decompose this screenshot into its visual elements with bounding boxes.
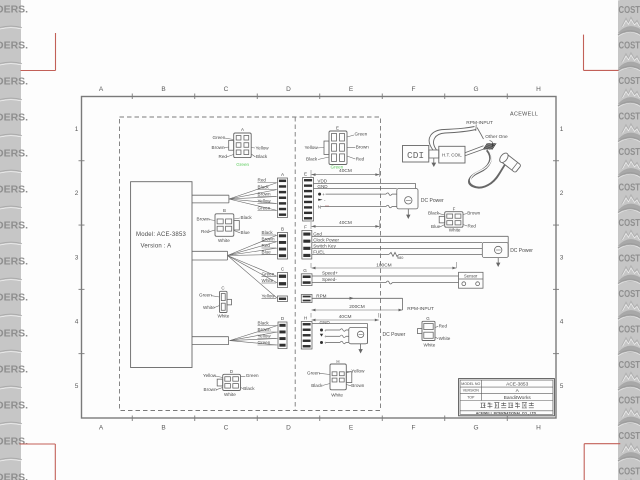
svg-text:ACEWELL: ACEWELL xyxy=(510,112,538,118)
svg-text:White: White xyxy=(424,343,436,348)
svg-text:Brown: Brown xyxy=(258,192,271,197)
svg-text:G: G xyxy=(303,268,307,273)
svg-text:White: White xyxy=(439,336,451,341)
svg-text:A: A xyxy=(99,425,104,432)
svg-text:C: C xyxy=(224,425,229,432)
svg-text:RPM-INPUT: RPM-INPUT xyxy=(466,120,493,126)
svg-text:Speed-: Speed- xyxy=(322,277,337,282)
svg-text:COST: COST xyxy=(619,252,640,264)
svg-text:DERS.: DERS. xyxy=(0,112,28,124)
svg-text:COST: COST xyxy=(619,430,640,442)
svg-text:A: A xyxy=(241,127,244,132)
svg-text:Black: Black xyxy=(243,386,255,391)
svg-text:Red: Red xyxy=(468,223,477,228)
svg-text:Green: Green xyxy=(258,206,271,211)
svg-text:Other One: Other One xyxy=(485,134,508,140)
svg-text:F: F xyxy=(453,206,456,211)
svg-text:D: D xyxy=(286,425,291,432)
svg-text:Model: ACE-3853: Model: ACE-3853 xyxy=(136,232,186,238)
svg-text:Brown: Brown xyxy=(467,211,480,216)
svg-text:DC Power: DC Power xyxy=(421,198,444,204)
svg-text:RPM-INPUT: RPM-INPUT xyxy=(407,306,434,312)
svg-text:Version : A: Version : A xyxy=(141,244,172,250)
svg-text:F: F xyxy=(304,225,307,230)
svg-text:E: E xyxy=(304,172,307,177)
svg-text:Red: Red xyxy=(201,229,210,234)
svg-text:5: 5 xyxy=(75,383,79,390)
svg-text:C: C xyxy=(224,86,229,93)
svg-text:VERSION: VERSION xyxy=(463,389,480,393)
svg-text:DERS.: DERS. xyxy=(0,220,28,232)
svg-text:+: + xyxy=(322,192,325,197)
svg-text:5: 5 xyxy=(560,383,564,390)
svg-text:F: F xyxy=(412,86,416,93)
svg-text:H: H xyxy=(536,425,541,432)
svg-text:H: H xyxy=(304,316,307,321)
svg-text:1: 1 xyxy=(560,126,564,133)
svg-text:2: 2 xyxy=(560,190,564,197)
svg-text:A: A xyxy=(99,86,104,93)
svg-text:H: H xyxy=(536,86,541,93)
svg-text:Green: Green xyxy=(355,132,368,137)
svg-text:N: N xyxy=(318,205,321,210)
svg-text:Green: Green xyxy=(262,272,275,277)
svg-text:H.T. COIL: H.T. COIL xyxy=(442,153,462,158)
svg-text:CDI: CDI xyxy=(407,150,424,161)
svg-text:40CM: 40CM xyxy=(339,314,352,320)
svg-text:Black: Black xyxy=(306,157,318,162)
svg-text:MODEL NO: MODEL NO xyxy=(461,382,480,386)
svg-text:DERS.: DERS. xyxy=(0,292,28,304)
svg-text:F: F xyxy=(412,425,416,432)
svg-text:Yellow: Yellow xyxy=(256,145,270,150)
svg-text:Black: Black xyxy=(258,321,270,326)
svg-text:1: 1 xyxy=(75,126,79,133)
svg-text:B: B xyxy=(223,208,226,213)
svg-text:ACE-3853: ACE-3853 xyxy=(506,382,528,388)
svg-text:Black: Black xyxy=(428,211,440,216)
svg-text:Red: Red xyxy=(262,243,271,248)
svg-text:DERS.: DERS. xyxy=(0,472,28,480)
svg-text:D: D xyxy=(281,316,285,321)
svg-text:Black: Black xyxy=(262,230,274,235)
svg-text:+: + xyxy=(324,334,327,339)
svg-text:2: 2 xyxy=(75,190,79,197)
svg-text:COST: COST xyxy=(619,39,640,51)
svg-text:Green: Green xyxy=(236,162,249,167)
svg-text:4: 4 xyxy=(75,319,79,326)
svg-text:Gnd: Gnd xyxy=(313,232,322,237)
svg-text:B: B xyxy=(161,86,165,93)
svg-text:White: White xyxy=(262,278,274,283)
svg-text:Switch Key: Switch Key xyxy=(313,244,336,249)
svg-text:3: 3 xyxy=(560,254,564,261)
svg-text:TOP: TOP xyxy=(467,396,475,400)
svg-text:Yellow: Yellow xyxy=(262,294,276,299)
svg-text:Black: Black xyxy=(258,185,270,190)
svg-text:DERS.: DERS. xyxy=(0,436,28,448)
svg-text:COST: COST xyxy=(619,181,640,193)
svg-text:G: G xyxy=(473,86,478,93)
svg-text:Red: Red xyxy=(219,154,228,159)
svg-text:BanditWorks: BanditWorks xyxy=(504,395,532,401)
svg-text:DERS.: DERS. xyxy=(0,328,28,340)
svg-text:40CM: 40CM xyxy=(339,168,352,174)
svg-text:G: G xyxy=(426,316,430,321)
svg-text:E: E xyxy=(349,86,354,93)
svg-text:DC Power: DC Power xyxy=(510,248,533,254)
svg-text:DERS.: DERS. xyxy=(0,400,28,412)
svg-text:Black: Black xyxy=(241,215,253,220)
svg-text:Speed+: Speed+ xyxy=(322,271,338,276)
svg-text:White: White xyxy=(449,227,461,232)
svg-text:Red: Red xyxy=(258,178,267,183)
svg-text:Brown: Brown xyxy=(212,145,225,150)
svg-text:DC Power: DC Power xyxy=(383,332,406,338)
svg-text:Yellow: Yellow xyxy=(258,199,272,204)
svg-text:COST: COST xyxy=(619,323,640,335)
svg-text:100CM: 100CM xyxy=(376,262,391,268)
svg-text:Blue: Blue xyxy=(262,250,272,255)
svg-text:COST: COST xyxy=(619,110,640,122)
svg-text:Red: Red xyxy=(439,323,448,328)
svg-text:980: 980 xyxy=(397,256,403,260)
svg-text:White: White xyxy=(331,393,343,398)
svg-text:DERS.: DERS. xyxy=(0,364,28,376)
svg-text:+: + xyxy=(324,328,327,333)
svg-text:Green: Green xyxy=(199,293,212,298)
svg-text:Blue: Blue xyxy=(241,230,251,235)
svg-text:Yellow: Yellow xyxy=(203,373,217,378)
svg-text:Brown: Brown xyxy=(204,387,217,392)
svg-text:DERS.: DERS. xyxy=(0,148,28,160)
svg-text:Green: Green xyxy=(246,373,259,378)
svg-text:GND: GND xyxy=(320,320,331,325)
svg-text:DERS.: DERS. xyxy=(0,184,28,196)
svg-text:RPM: RPM xyxy=(316,293,326,298)
svg-text:COST: COST xyxy=(619,146,640,158)
svg-text:White: White xyxy=(218,238,230,243)
svg-text:Green: Green xyxy=(213,135,226,140)
svg-text:Green: Green xyxy=(307,370,320,375)
svg-text:E: E xyxy=(349,425,354,432)
svg-text:Black: Black xyxy=(311,383,323,388)
svg-text:White: White xyxy=(224,392,236,397)
svg-text:-: - xyxy=(324,198,326,203)
svg-text:COST: COST xyxy=(619,217,640,229)
svg-text:Black: Black xyxy=(256,154,268,159)
svg-text:ACEWELL INTERNATIONAL CO., LTD: ACEWELL INTERNATIONAL CO., LTD. xyxy=(476,411,537,415)
svg-text:Yellow: Yellow xyxy=(351,368,365,373)
svg-text:DERS.: DERS. xyxy=(0,76,28,88)
svg-text:White: White xyxy=(218,313,230,318)
svg-text:Sensor: Sensor xyxy=(464,274,478,279)
svg-text:DERS.: DERS. xyxy=(0,4,28,16)
svg-text:Brown: Brown xyxy=(258,327,271,332)
svg-text:E: E xyxy=(336,125,339,130)
svg-text:COST: COST xyxy=(619,75,640,87)
svg-text:GND: GND xyxy=(317,184,328,189)
svg-text:Brown: Brown xyxy=(351,383,364,388)
svg-text:40CM: 40CM xyxy=(339,220,352,226)
svg-text:White: White xyxy=(203,305,215,310)
svg-text:B: B xyxy=(161,425,165,432)
svg-text:COST: COST xyxy=(619,359,640,371)
svg-text:4: 4 xyxy=(560,319,564,326)
svg-text:DERS.: DERS. xyxy=(0,40,28,52)
svg-text:G: G xyxy=(473,425,478,432)
svg-text:C: C xyxy=(221,285,224,290)
svg-text:Yellow: Yellow xyxy=(258,334,272,339)
svg-text:COST: COST xyxy=(619,288,640,300)
svg-text:H: H xyxy=(336,359,339,364)
svg-text:Green: Green xyxy=(258,340,271,345)
svg-text:DERS.: DERS. xyxy=(0,256,28,268)
svg-text:COST: COST xyxy=(619,394,640,406)
svg-text:Brown: Brown xyxy=(197,217,210,222)
svg-text:A: A xyxy=(281,172,285,177)
svg-text:C: C xyxy=(281,267,285,272)
svg-text:Brown: Brown xyxy=(356,145,369,150)
svg-text:200CM: 200CM xyxy=(349,304,364,310)
svg-text:3: 3 xyxy=(75,254,79,261)
svg-text:FUEL: FUEL xyxy=(313,250,325,255)
svg-text:COST: COST xyxy=(619,4,640,16)
svg-text:B: B xyxy=(281,227,284,232)
svg-text:Clock Power: Clock Power xyxy=(313,238,339,243)
svg-text:Red: Red xyxy=(356,157,365,162)
svg-text:D: D xyxy=(286,86,291,93)
svg-text:COST: COST xyxy=(619,465,640,477)
svg-text:Blue: Blue xyxy=(431,224,441,229)
svg-text:Brown: Brown xyxy=(262,237,275,242)
svg-text:Yellow: Yellow xyxy=(305,145,319,150)
svg-text:D: D xyxy=(230,369,233,374)
